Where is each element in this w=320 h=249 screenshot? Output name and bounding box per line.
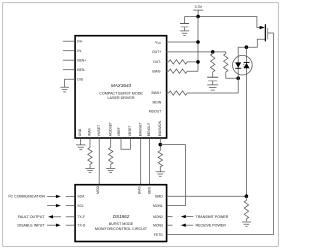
resistor R-MODSET [108, 122, 113, 168]
svg-text:BEN: BEN [147, 186, 151, 193]
svg-text:VMSET: VMSET [97, 125, 101, 136]
svg-text:COMPACT BURST MODE: COMPACT BURST MODE [99, 91, 143, 95]
svg-text:OUT-: OUT- [153, 60, 161, 64]
svg-text:MAX3643: MAX3643 [111, 83, 132, 88]
svg-text:IN-: IN- [77, 49, 82, 53]
capacitor C2 under R1 [207, 77, 218, 85]
svg-text:SCL: SCL [77, 204, 84, 208]
svg-text:I²C COMMUNICATION: I²C COMMUNICATION [8, 195, 45, 199]
ground at R-BMD [242, 222, 251, 227]
svg-text:IN+: IN+ [77, 40, 82, 44]
svg-text:MOD: MOD [96, 185, 100, 193]
svg-text:3.3V: 3.3V [195, 5, 203, 9]
svg-text:IMAX: IMAX [88, 127, 92, 136]
pin BIASSET wire to BIAS [138, 122, 142, 184]
svg-text:BIASMON: BIASMON [158, 120, 162, 136]
pin MON3 [153, 224, 172, 228]
node OUT+ / R1 top [211, 50, 215, 54]
IC U2 label DS1862 [95, 214, 148, 231]
svg-text:RECEIVE POWER: RECEIVE POWER [196, 224, 227, 228]
ground at R-BIASMON [156, 172, 165, 176]
pin OUT+ wire [152, 50, 226, 54]
svg-text:BIAS-: BIAS- [152, 70, 161, 74]
svg-text:FAULT OUTPUT: FAULT OUTPUT [18, 215, 45, 219]
ground at R-MODSET [106, 168, 115, 172]
node BIASMON junction [159, 143, 163, 147]
node 3.3V junction [196, 15, 200, 19]
svg-text:TRANSMIT POWER: TRANSMIT POWER [196, 215, 229, 219]
svg-text:BEN+: BEN+ [77, 59, 86, 63]
transistor Q1 PMOS [260, 24, 268, 41]
resistor R-OUT- (horizontal) [153, 60, 198, 65]
pin IN+ [63, 40, 83, 44]
resistor R-BIAS+ (horizontal, MD path) [151, 91, 238, 95]
svg-text:MON1: MON1 [153, 204, 163, 208]
svg-text:MON3: MON3 [153, 224, 163, 228]
svg-text:MDIN: MDIN [153, 101, 162, 105]
pin VCC wire [155, 40, 198, 45]
wire VCC rail vertical [197, 17, 199, 72]
wire PD node down to BIAS+ row [237, 78, 239, 93]
ground at GND pin [76, 145, 86, 150]
resistor R1 (vertical, OUT+ to cap) [211, 52, 215, 77]
svg-text:LASER DRIVER: LASER DRIVER [107, 96, 134, 100]
node OUT- junction [196, 60, 200, 64]
svg-text:FETG: FETG [154, 233, 163, 237]
pin BMD wire [155, 195, 246, 199]
svg-text:BIAS+: BIAS+ [151, 91, 161, 95]
supply 3.3V [193, 5, 203, 16]
pin VMSET wire to MOD [97, 125, 101, 185]
label I2C COMMUNICATION [8, 195, 60, 199]
wire laser cathode line (long vertical) [245, 47, 247, 196]
3.3V rail [185, 17, 260, 28]
pin MON2 [153, 215, 172, 219]
TOSA package circle [233, 55, 253, 75]
svg-text:BEN-: BEN- [77, 68, 85, 72]
IC U1 label MAX3643 [99, 83, 143, 100]
svg-text:OUT+: OUT+ [152, 50, 161, 54]
ground at DIS [60, 87, 69, 92]
svg-text:DISABLE INPUT: DISABLE INPUT [18, 224, 46, 228]
svg-text:BIASSET: BIASSET [138, 122, 142, 136]
wire VREF-VBSET loop [117, 125, 132, 149]
label DISABLE INPUT [18, 224, 61, 228]
pin IN- [63, 49, 82, 53]
laser diode D2 [244, 62, 250, 68]
IC U1 MAX3643 box [75, 36, 167, 138]
svg-text:GND: GND [78, 128, 82, 136]
svg-text:MONITOR/CONTROL CIRCUIT: MONITOR/CONTROL CIRCUIT [95, 227, 148, 231]
svg-text:VREF: VREF [117, 127, 121, 136]
node laser supply junction [245, 45, 249, 49]
svg-text:MON2: MON2 [153, 215, 163, 219]
resistor R2 (vertical, OUT+ to PD node) [224, 52, 239, 78]
resistor R-IMAX [88, 127, 93, 168]
pin BEN+ [63, 59, 86, 63]
svg-text:TX-D: TX-D [77, 224, 85, 228]
capacitor C1 [180, 17, 189, 31]
pin BEN- [63, 68, 86, 72]
ground at C1 [180, 31, 189, 36]
IC U2 DS1862 box [75, 185, 167, 242]
svg-text:VBSET: VBSET [128, 125, 132, 136]
svg-text:BENOUT: BENOUT [147, 122, 151, 136]
pin GND [78, 128, 82, 145]
node VCC junction [196, 40, 200, 44]
resistor R-BIASMON [158, 120, 163, 171]
svg-text:MDOUT: MDOUT [149, 110, 161, 114]
pin TX-D [66, 224, 86, 228]
pin SDA [66, 195, 85, 199]
pin TX-F [66, 215, 85, 219]
wire PD line / anode node [238, 39, 265, 78]
svg-text:SDA: SDA [77, 195, 85, 199]
pin BENOUT wire to BEN [147, 122, 151, 184]
label TRANSMIT POWER [181, 215, 229, 219]
svg-text:TX-F: TX-F [77, 215, 85, 219]
arrow SCL [47, 204, 61, 207]
svg-text:VCC: VCC [155, 40, 161, 45]
resistor R-BMD [244, 196, 248, 221]
svg-text:BIAS: BIAS [138, 185, 142, 193]
svg-text:DS1862: DS1862 [113, 214, 130, 219]
node PD anode junction [236, 76, 240, 80]
wire Q1 gate to FETG [167, 33, 274, 235]
wire BIASMON to MON1 [160, 145, 185, 206]
svg-text:BURST MODE: BURST MODE [109, 222, 134, 226]
photodiode D1 [235, 62, 241, 68]
label FAULT OUTPUT [18, 215, 61, 219]
ground at R-IMAX [85, 168, 94, 172]
ground under C2 [207, 85, 218, 90]
pin SCL [66, 204, 84, 208]
svg-text:DIS: DIS [77, 78, 83, 82]
resistor R-BIAS- (horizontal) [152, 69, 198, 74]
light arrows [243, 64, 245, 67]
svg-text:BMD: BMD [155, 195, 163, 199]
label RECEIVE POWER [181, 224, 226, 228]
svg-text:MODSET: MODSET [108, 122, 112, 136]
node BMD junction [245, 194, 249, 198]
pin DIS wire [65, 78, 84, 88]
